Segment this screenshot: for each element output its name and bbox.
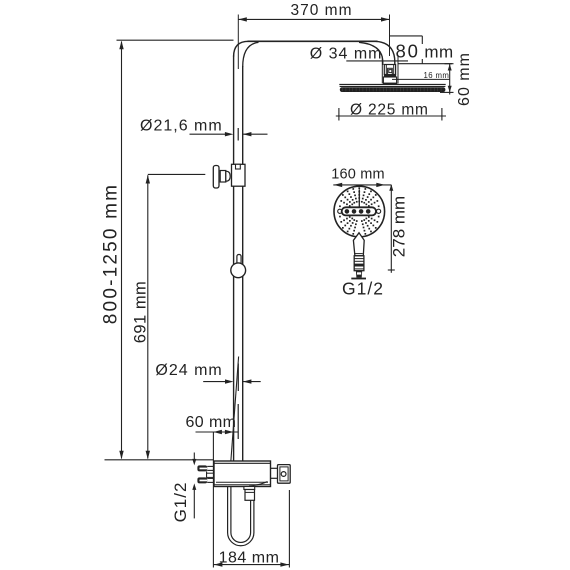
dim 160 right arrow [376, 183, 385, 187]
hand shower tip [356, 271, 362, 278]
top arm inner bend [243, 42, 259, 67]
hand shower handle rib 2 [354, 260, 364, 262]
hand shower side nub right [377, 209, 381, 213]
dim 225 right tick [441, 108, 443, 121]
hook stub [237, 255, 241, 265]
hose inner [231, 487, 251, 542]
hand shower tip slit [357, 272, 361, 274]
dim 24 right-pointing arrow [225, 379, 234, 383]
dim 278 line [390, 185, 392, 273]
dim 80 top ref line [390, 35, 423, 37]
hand shower handle rib 1 [354, 258, 364, 260]
dim 184 right arrow [280, 562, 289, 566]
mixer body bottom inner line 2 [215, 484, 271, 486]
hand shower neck [353, 233, 364, 256]
dim 60r line [449, 64, 451, 95]
mixer upper inlet slit [200, 468, 208, 470]
svg-text:370 mm: 370 mm [291, 2, 353, 19]
hand shower handle dark band [354, 264, 364, 267]
svg-text:16 mm: 16 mm [424, 71, 450, 80]
top arm right outer bend [376, 41, 395, 65]
hand shower pill dot 1 [345, 209, 350, 214]
svg-text:Ø21,6 mm: Ø21,6 mm [140, 118, 223, 135]
head connector bottom line [383, 82, 397, 84]
head disc band texture [342, 88, 344, 92]
dim 24 arrow tail [243, 381, 261, 383]
svg-text:Ø 34 mm: Ø 34 mm [310, 45, 383, 62]
mixer right stem bottom [271, 477, 278, 479]
dim 21.6 arrow tail [243, 133, 268, 135]
diagonal line to mixer [231, 357, 239, 461]
svg-text:60 mm: 60 mm [186, 414, 237, 431]
hand shower pill dot 2 [352, 209, 357, 214]
dim G12 line upper [193, 453, 195, 460]
dim 60 right arrow [225, 430, 234, 434]
dim G12 bottom arrow [192, 483, 196, 490]
riser pipe left edge [233, 56, 235, 462]
head disc second line [340, 86, 446, 88]
holder block [232, 164, 246, 186]
svg-text:mm: mm [424, 42, 453, 61]
mixer body [214, 461, 271, 487]
top arm right inner bend [359, 42, 383, 65]
ref line top (wall top) [117, 39, 234, 41]
hand shower face circle [334, 186, 385, 237]
mixer inlet bridge vertical [206, 471, 208, 477]
dim 21.6 center tick [237, 128, 239, 141]
svg-text:G1/2: G1/2 [171, 482, 190, 523]
svg-text:184 mm: 184 mm [219, 549, 280, 566]
head connector inner left [385, 65, 387, 75]
head disc dark band [340, 87, 446, 92]
dim G12 top arrow [192, 459, 196, 466]
hand shower pill dot 3 [359, 209, 364, 214]
holder knob bump [226, 171, 230, 181]
hand shower side nub left [338, 209, 342, 213]
dim 184 right extension [288, 490, 290, 568]
dim 34 underline leader [346, 60, 408, 62]
hand shower neck line [354, 253, 363, 255]
mixer lower inlet collar bottom [207, 481, 214, 483]
mixer bottom curve [249, 482, 268, 487]
dim 60r top tick [445, 63, 454, 65]
dim 184 left arrow [214, 562, 223, 566]
hook circle [231, 263, 246, 278]
dim 370 mm right arrow [381, 17, 390, 21]
top arm top line [248, 40, 378, 42]
dim 34 right witness line [397, 55, 399, 84]
mixer handle inner [280, 467, 288, 481]
dim 278 bottom tick [388, 269, 395, 271]
hose nut mid line [245, 491, 255, 493]
svg-text:Ø24 mm: Ø24 mm [155, 362, 222, 379]
hand shower handle rib 3 [354, 268, 364, 270]
holder block notch [236, 164, 241, 169]
dim 370 mm left extension [237, 15, 239, 70]
mixer handle circle [281, 472, 286, 477]
dim 160 left arrow [334, 183, 343, 187]
dim 21.6 left-pointing arrow [243, 132, 252, 136]
dim 24 center tick [237, 364, 239, 392]
mixer upper inlet stub [197, 465, 207, 471]
mixer handle outer [278, 465, 291, 484]
dim 60r bottom tick [440, 91, 454, 93]
head connector dark band [384, 75, 396, 78]
dim 60 left arrow [213, 430, 222, 434]
dim 800-1250 line [121, 42, 123, 459]
mixer body bottom inner line 1 [216, 481, 268, 483]
dim 160 line [333, 184, 391, 186]
hand shower top ray line [358, 189, 360, 207]
head connector lower [383, 77, 396, 83]
dim 60r top arrow [448, 64, 452, 71]
dim 800-1250 bottom arrow [119, 451, 123, 460]
dim 21.6 right-pointing arrow [225, 132, 234, 136]
hose outer [228, 487, 254, 546]
dim 60r bottom arrow [448, 86, 452, 93]
head connector tiny square [389, 70, 392, 73]
svg-text:691 mm: 691 mm [132, 281, 150, 344]
svg-text:G1/2: G1/2 [342, 278, 384, 298]
dim 691 top arrow [146, 175, 150, 184]
dim 370 mm left arrow [238, 17, 247, 21]
top arm outer bend [234, 41, 249, 56]
dim 60 center tick [237, 404, 239, 439]
hose nut flange [244, 487, 255, 490]
hand shower tip flange [351, 278, 366, 280]
dim 21.6 leader line [190, 133, 229, 135]
svg-text:160 mm: 160 mm [331, 167, 385, 183]
riser pipe right edge [242, 66, 244, 461]
dim 225 line [336, 115, 446, 117]
svg-text:278 mm: 278 mm [390, 196, 409, 257]
head connector inner box [388, 68, 393, 74]
dim 278 top arrow [389, 184, 393, 191]
ref line bottom (mixer top) [105, 459, 214, 461]
dim 691 bottom arrow [146, 451, 150, 460]
dim 24 leader line [203, 381, 228, 383]
hand shower handle [354, 256, 364, 271]
mixer upper inlet collar top [207, 465, 214, 467]
dim 691 line [147, 175, 149, 458]
hand shower center pill [342, 207, 376, 215]
dim 34 left witness line [381, 57, 383, 84]
holder knob disc [213, 166, 219, 189]
svg-text:80: 80 [396, 40, 420, 61]
hose nut [245, 490, 255, 501]
hand shower pill dot 4 [366, 209, 371, 214]
svg-text:60 mm: 60 mm [456, 52, 473, 106]
head disc top line [339, 84, 445, 86]
mixer body top inner line [214, 462, 271, 464]
mixer inlet bridge box [207, 473, 214, 477]
holder knob neck [220, 171, 226, 183]
dim 24 left-pointing arrow [243, 379, 252, 383]
hand shower spray dots [378, 211, 380, 213]
dim 691 ref line [148, 173, 206, 175]
mixer right stem top [271, 467, 278, 469]
dim 60 bottom line [196, 431, 239, 433]
dim 80 vertical upper [421, 36, 423, 44]
head connector upper [384, 65, 395, 75]
dim 184 line [213, 564, 289, 566]
mixer upper inlet collar bottom [207, 469, 214, 471]
dim 80 vertical lower [421, 59, 423, 64]
dim 225 left tick [338, 108, 340, 121]
dim 16 leader [392, 78, 450, 80]
mixer lower inlet collar top [207, 477, 214, 479]
dim 370 mm right extension [389, 15, 391, 57]
head connector inner right [393, 65, 395, 75]
svg-text:Ø 225 mm: Ø 225 mm [350, 102, 429, 119]
dim 800-1250 top arrow [119, 41, 123, 50]
svg-text:800-1250 mm: 800-1250 mm [101, 183, 122, 324]
mixer lower inlet stub [197, 477, 207, 483]
dim 80 bottom ref line [398, 63, 452, 65]
mixer lower inlet slit [200, 480, 208, 482]
mixer left extension line [212, 432, 214, 568]
dim G12 line lower [193, 490, 195, 519]
dim 370 mm line [238, 18, 389, 20]
